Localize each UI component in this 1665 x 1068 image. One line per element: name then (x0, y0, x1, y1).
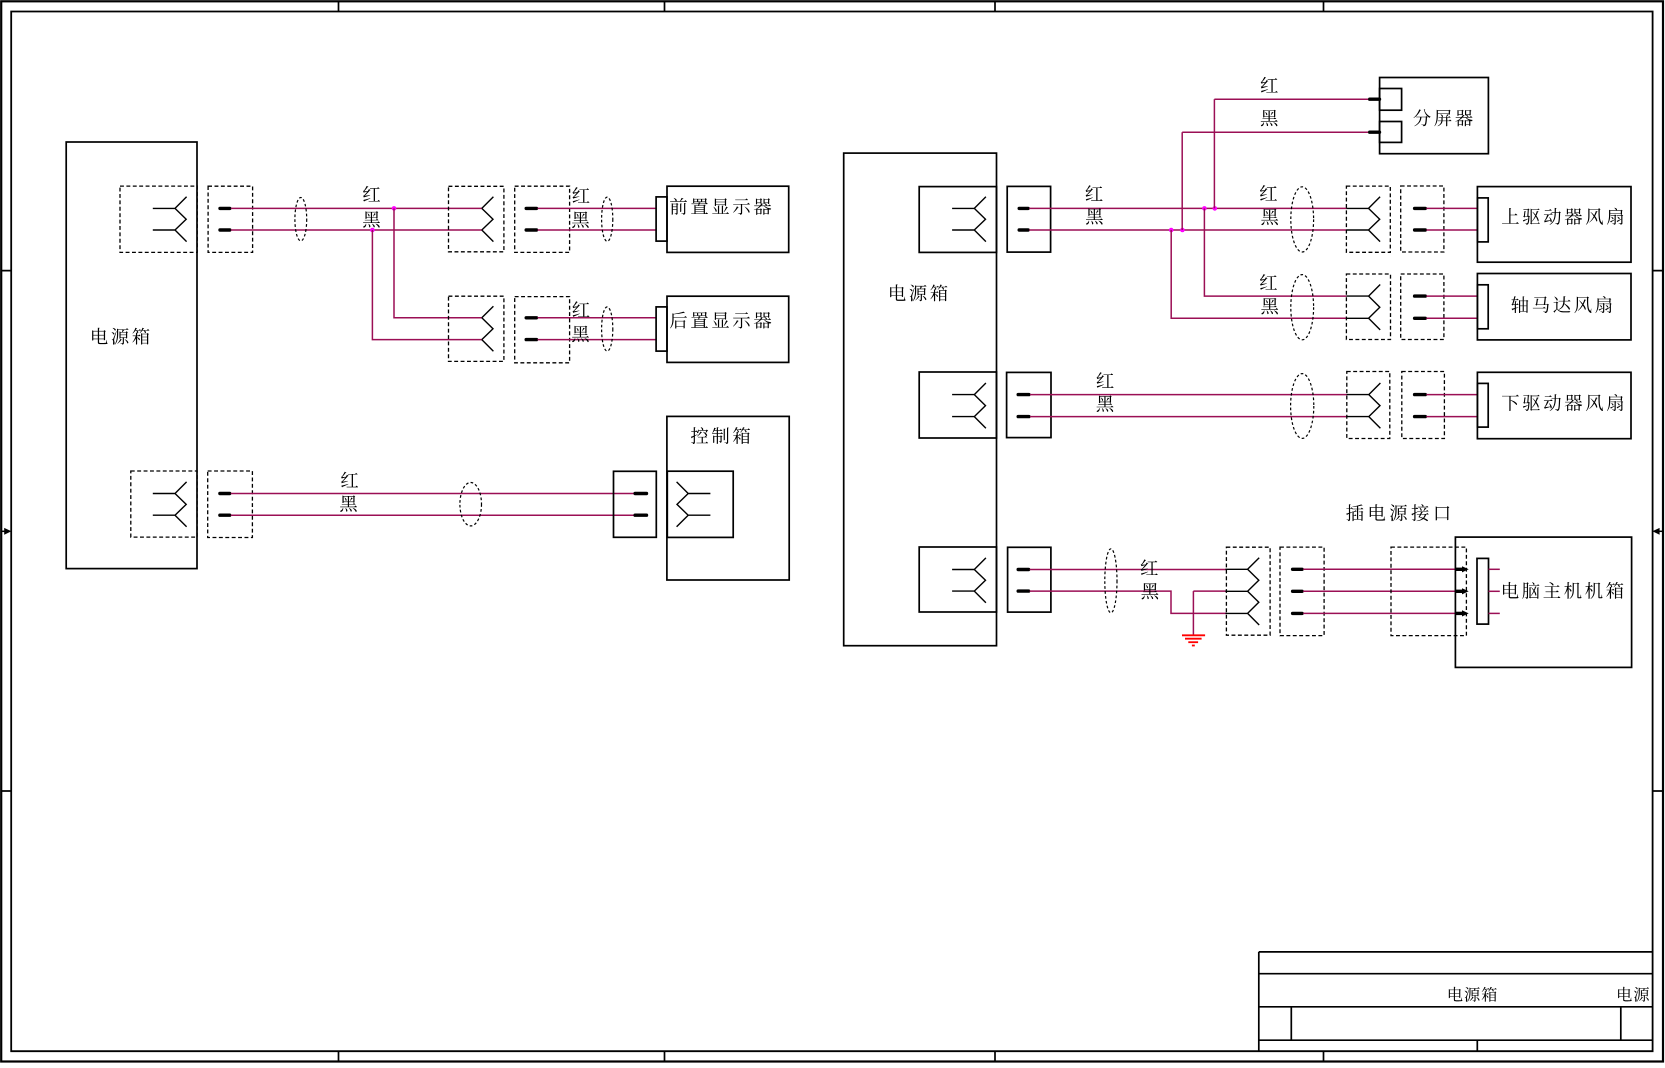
connector CN6 socket outline (919, 187, 996, 253)
wire black W6 J2 to D1 (538, 229, 657, 231)
connector CN10 plug outline (1347, 372, 1390, 439)
label D7 分屏器 (1413, 109, 1472, 126)
label wire W1 红 (363, 186, 380, 202)
wire red W17 rowA branch to CN8 (1204, 208, 1346, 296)
wire black W22 J9 to CN10 (1030, 416, 1347, 418)
centering arrow right (1652, 528, 1662, 535)
label wire W10 黑 (340, 495, 357, 511)
label D6 下驱动器风扇 (1502, 394, 1623, 411)
wire red W23 J10 to D6 (1426, 394, 1477, 396)
power box PS1 电源箱 (66, 142, 197, 569)
wire black W26 J11 to CN12 (1030, 591, 1227, 613)
connector CN4 socket outline (131, 471, 197, 537)
pin J3.2 (526, 338, 536, 341)
cable loop E8 (1105, 549, 1117, 613)
connector CN12 contacts (1225, 558, 1259, 625)
pin J1.2 (220, 228, 230, 231)
label D4 上驱动器风扇 (1502, 208, 1623, 225)
wire black W2 J1.2 to CN2 (231, 229, 482, 231)
pin J10.2 (1415, 415, 1426, 418)
fan D6 下驱动器风扇 box (1477, 372, 1631, 438)
cable loop E7 (1291, 374, 1314, 439)
label wire W8 黑 (572, 326, 589, 342)
pin J8.2 (1415, 317, 1426, 320)
label wire W26 黑 (1141, 583, 1158, 599)
pin header J9 outline (1007, 372, 1051, 437)
label PS2 电源箱 (890, 284, 947, 301)
pin D7.2 (1370, 130, 1380, 133)
connector CN1 socket outline (120, 186, 197, 252)
wire red W28 J12 to D8 (1303, 568, 1455, 570)
label wire W17 红 (1260, 274, 1277, 290)
pin J3.1 (526, 316, 536, 319)
pin header J12 outline (1280, 547, 1324, 636)
pin J4.2 (220, 514, 230, 517)
connector CN9 socket outline (919, 372, 996, 438)
pin J11.1 (1018, 568, 1028, 571)
label wire W25 红 (1141, 559, 1158, 575)
pin J10.1 (1415, 393, 1426, 396)
wire black W18 rowA branch to CN8 (1171, 230, 1346, 318)
pin J9.2 (1018, 415, 1029, 418)
fan D6 port notch (1477, 383, 1488, 427)
label wire W12 黑 (1086, 208, 1103, 224)
power box PS2 电源箱 (844, 153, 997, 646)
connector CN2 contacts (482, 197, 494, 242)
cable loop E5 (1291, 187, 1314, 252)
wire black W30 J12 to D8 (1303, 612, 1455, 614)
pin J6.2 (1019, 228, 1028, 231)
pin header J6 outline (1007, 186, 1050, 252)
label D2 后置显示器 (670, 312, 771, 329)
pin J7.1 (1415, 207, 1426, 210)
wire red W21 J9 to CN10 (1030, 394, 1347, 396)
pin header J10 outline (1402, 372, 1445, 439)
connector CN8 contacts (1346, 285, 1380, 330)
pin J2.1 (526, 207, 536, 210)
label wire W11 红 (1086, 185, 1103, 201)
pin J12.1 (1293, 568, 1303, 571)
pin header J7 outline (1401, 186, 1444, 252)
pin J8.1 (1415, 294, 1426, 297)
wire red W5 J2 to D1 (538, 207, 657, 209)
wire black W20 J8 to D5 (1426, 317, 1477, 319)
pin J13.1 arrow pin (1455, 566, 1468, 572)
label wire W15 红 (1261, 77, 1278, 93)
border zone ticks left (1, 271, 11, 791)
wire ground W27 vertical (1192, 591, 1194, 635)
wire red W13 J7 to D4 (1426, 207, 1477, 209)
fan D4 port notch (1477, 198, 1488, 242)
wire ground W29 J12 to D8 (1303, 590, 1455, 592)
computer case D8 power inlet slot (1477, 558, 1489, 624)
connector CN1 contacts (153, 197, 187, 242)
display D2 后置显示器 port notch (656, 307, 667, 351)
wire stub D8 pin2 (1489, 590, 1500, 592)
wire ground W27 CN12 to earth (1193, 590, 1226, 592)
control box D3 控制箱 (667, 416, 789, 580)
connector CN7 contacts (1346, 197, 1380, 242)
wire red W1 J1.1 to CN2 (231, 207, 482, 209)
junction node red rowA branch (1202, 206, 1207, 211)
socket J13 插电源接口 outline (1391, 547, 1466, 636)
border zone ticks bottom (339, 1051, 1324, 1061)
wire red W3 branch to CN3 (394, 208, 482, 317)
pin D7.1 (1370, 97, 1380, 100)
display D2 后置显示器 box (667, 296, 789, 362)
label wire W9 红 (341, 472, 358, 488)
pin header J11 outline (1008, 547, 1051, 612)
wire black W14 J7 to D4 (1426, 229, 1477, 231)
label PS1 电源箱 (92, 328, 149, 345)
display D1 前置显示器 box (667, 186, 789, 252)
title block drawing name 电源箱 (1449, 987, 1497, 1002)
junction node black rowA branch (1169, 228, 1174, 233)
wire red W9 J4 to J5 (231, 493, 634, 495)
label D1 前置显示器 (670, 198, 771, 215)
pin header J3 outline (515, 297, 570, 363)
wire black W12 J6 to CN7 (1029, 229, 1346, 231)
label D8 电脑主机机箱 (1503, 582, 1623, 599)
connector CN5 socket outline (667, 471, 733, 537)
fan D5 轴马达风扇 box (1477, 274, 1631, 340)
pin J9.1 (1018, 393, 1029, 396)
label wire W21 红 (1097, 372, 1114, 388)
connector CN6 contacts (952, 197, 986, 242)
pin J6.1 (1019, 207, 1028, 210)
junction node black rowA splitter (1180, 228, 1185, 233)
connector CN8 plug outline (1346, 274, 1390, 340)
display D1 前置显示器 port notch (656, 197, 667, 241)
border zone ticks top (339, 1, 1324, 11)
cable loop E4 (460, 483, 482, 526)
pin J5.2 (635, 514, 646, 517)
splitter D7 port square 2 (1380, 122, 1402, 143)
wire red W15 splitter feed vertical (1213, 99, 1215, 208)
ground GND1 earth symbol (1182, 635, 1205, 645)
connector CN3 contacts (482, 306, 494, 351)
label wire W5 红 (572, 187, 589, 203)
connector CN5 contacts (677, 482, 711, 527)
label wire W16 黑 (1261, 110, 1278, 126)
title block sheet name 电源 (1618, 987, 1649, 1002)
connector CN10 contacts (1347, 383, 1381, 428)
wire black W4 branch to CN3 (372, 230, 481, 340)
pin J11.2 (1018, 589, 1028, 592)
pin header J2 outline (515, 186, 570, 252)
splitter D7 分屏器 box (1380, 78, 1489, 154)
label wire W6 黑 (572, 211, 589, 227)
wire stub D8 pin1 (1489, 568, 1500, 570)
pin header J1 outline (208, 186, 253, 252)
wire black W10 J4 to J5 (231, 514, 634, 516)
connector CN9 contacts (952, 383, 986, 428)
wire red W15 splitter feed horizontal (1214, 98, 1368, 100)
wire red W25 J11 to CN12 (1030, 569, 1227, 571)
pin J4.1 (220, 492, 230, 495)
label D3 控制箱 (691, 427, 750, 444)
connector CN7 plug outline (1346, 186, 1390, 252)
label wire W11b 红 (1260, 185, 1277, 201)
pin header J8 outline (1401, 274, 1444, 340)
border zone ticks right (1653, 271, 1663, 791)
pin J13.2 arrow pin (1455, 588, 1468, 594)
wire stub D8 pin3 (1489, 612, 1500, 614)
cable loop E2 (602, 197, 613, 241)
fan D4 上驱动器风扇 box (1477, 187, 1631, 263)
label wire W7 红 (572, 301, 589, 317)
wire black W16 splitter feed vertical (1181, 132, 1183, 230)
pin J1.1 (220, 207, 230, 210)
pin J7.2 (1415, 228, 1426, 231)
splitter D7 port square 1 (1380, 89, 1402, 111)
connector CN11 socket outline (919, 547, 996, 612)
wire black W24 J10 to D6 (1426, 416, 1477, 418)
junction node black row1 (370, 228, 375, 233)
cable loop E6 (1291, 275, 1314, 340)
connector CN3 plug outline (449, 296, 504, 361)
cable loop E1 (295, 198, 307, 241)
wire black W16 splitter feed horizontal (1182, 131, 1368, 133)
pin J2.2 (526, 228, 536, 231)
wire red W7 J3 to D2 (538, 317, 657, 319)
pin J12.2 (1293, 590, 1303, 593)
label wire W22 黑 (1097, 395, 1114, 411)
connector CN11 contacts (952, 558, 986, 603)
pin header J4 outline (208, 471, 253, 538)
title block grid (1259, 952, 1653, 1051)
connector CN4 contacts (153, 482, 187, 527)
label 插电源接口 (1346, 504, 1449, 521)
wire black W8 J3 to D2 (538, 339, 657, 341)
label wire W12b 黑 (1261, 209, 1278, 225)
cable loop E3 (602, 307, 613, 351)
junction node red row1 (392, 206, 397, 211)
computer case D8 电脑主机机箱 box (1455, 537, 1631, 667)
label wire W18 黑 (1261, 298, 1278, 314)
label wire W2 黑 (363, 211, 380, 227)
pin header J5 outline (614, 471, 657, 537)
label D5 轴马达风扇 (1511, 296, 1611, 313)
fan D5 port notch (1477, 285, 1488, 329)
pin J5.1 (635, 492, 646, 495)
connector CN2 plug outline (449, 186, 504, 252)
centering arrow left (1, 528, 11, 535)
pin J12.3 (1293, 612, 1303, 615)
pin J13.3 arrow pin (1455, 610, 1468, 616)
wire red W11 J6 to CN7 (1029, 207, 1346, 209)
junction node red rowA splitter (1213, 206, 1218, 211)
wire red W19 J8 to D5 (1426, 295, 1477, 297)
connector CN12 plug outline (1226, 547, 1270, 635)
